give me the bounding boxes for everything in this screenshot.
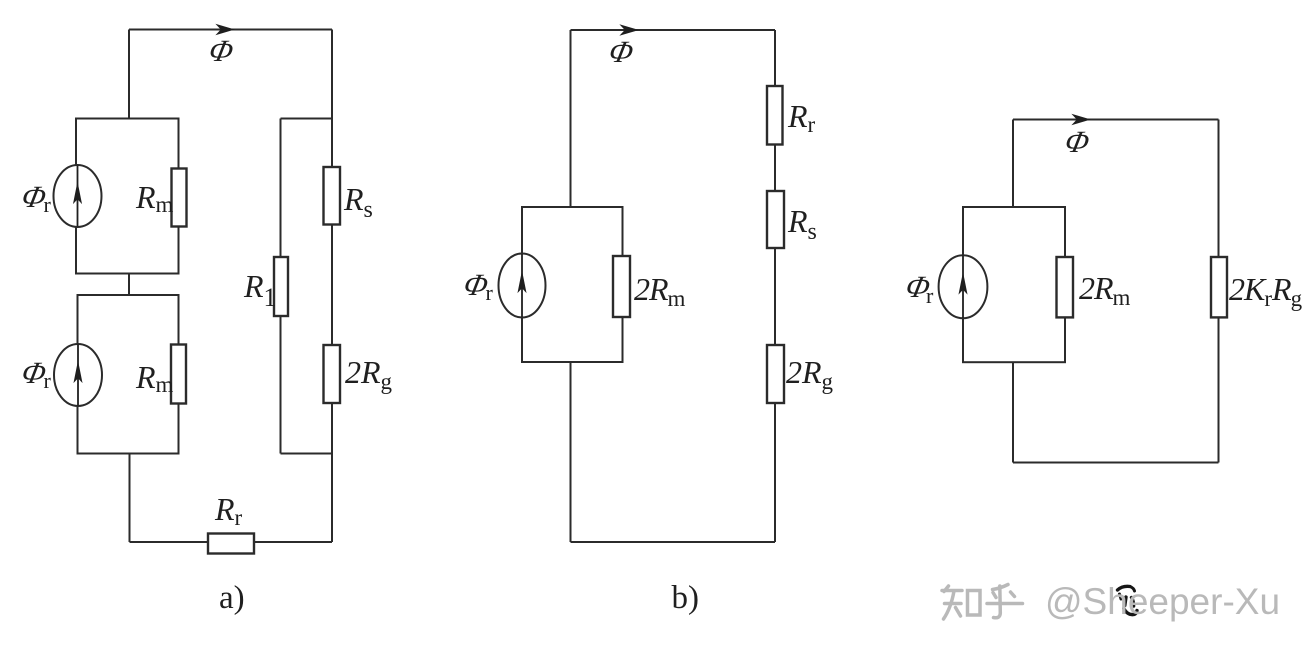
node label PHI (circuit c)	[1062, 124, 1093, 159]
flux arrow on circuit c top wire	[1073, 115, 1089, 124]
flux source PHI_r (circuit b, ellipse)	[499, 254, 546, 318]
caption c) visible black remnants over watermark	[1118, 586, 1138, 614]
flux source PHI_r 1 (circuit a, ellipse)	[54, 165, 102, 227]
resistor 2KrRg (circuit c)	[1211, 257, 1227, 317]
value label PHI_r (circuit b)	[461, 267, 492, 302]
flux source PHI_r 1 internal arrow	[74, 166, 81, 227]
svg-text:r: r	[926, 283, 934, 308]
wire: circuit b right bus	[774, 30, 776, 542]
resistor R1 (circuit a)	[274, 257, 288, 316]
svg-text:b): b)	[672, 580, 700, 616]
wire: circuit a parallel-section top jumper	[281, 118, 333, 120]
wire: circuit b source loop box	[522, 207, 623, 362]
wire: circuit c source loop box	[963, 207, 1065, 362]
svg-text:r: r	[486, 280, 494, 305]
resistor Rr (circuit a, horizontal)	[208, 534, 254, 554]
flux source PHI_r 2 (circuit a, ellipse)	[54, 344, 102, 406]
flux source PHI_r (circuit c, ellipse)	[939, 255, 988, 318]
wire: circuit b left riser	[570, 30, 572, 207]
value label PHI_r 2	[19, 355, 50, 390]
flux source PHI_r (circuit b) internal arrow	[518, 254, 525, 317]
watermark hanzi ZHI (knowledge)	[942, 586, 980, 619]
wire: circuit a top wire	[129, 29, 332, 31]
resistor Rm 1 (circuit a)	[172, 169, 187, 227]
flux arrow on circuit b top wire	[621, 25, 637, 34]
resistor 2Rg (circuit a)	[324, 345, 341, 403]
wire: circuit c right bus	[1218, 120, 1220, 463]
resistor Rs (circuit b)	[767, 191, 784, 248]
wire: circuit c bottom wire	[1013, 462, 1219, 464]
wire: circuit a left riser from top wire to source box 1	[128, 30, 130, 119]
flux source PHI_r 2 internal arrow	[74, 345, 81, 406]
value label PHI_r (circuit c)	[903, 269, 934, 304]
svg-text:r: r	[44, 368, 52, 393]
value label PHI_r 1	[19, 179, 50, 214]
wire: circuit a R1 branch vertical	[280, 119, 282, 454]
wire: circuit c bottom riser	[1012, 362, 1014, 462]
wire: circuit a source loop box 2	[78, 295, 179, 454]
node label PHI (circuit a)	[206, 33, 237, 68]
resistor Rm 2 (circuit a)	[171, 345, 186, 404]
resistor 2Rg (circuit b)	[767, 345, 784, 403]
wire: circuit a bottom wire	[130, 541, 333, 543]
watermark hanzi HU (at)	[987, 585, 1023, 618]
wire: circuit b top wire	[571, 29, 776, 31]
wire: circuit c top wire	[1013, 119, 1219, 121]
node label PHI (circuit b)	[606, 34, 637, 69]
svg-text:r: r	[44, 192, 52, 217]
wire: circuit a source loop box 1	[76, 119, 179, 274]
resistor 2Rm (circuit c)	[1057, 257, 1074, 317]
wire: circuit a parallel-section bottom jumper	[281, 453, 333, 455]
wire: circuit a bottom riser	[129, 454, 131, 543]
wire: circuit a link between source boxes	[128, 274, 130, 296]
wire: circuit b bottom wire	[571, 541, 776, 543]
flux source PHI_r (circuit c) internal arrow	[959, 256, 966, 319]
svg-text:@Sheeper-Xu: @Sheeper-Xu	[1045, 581, 1280, 622]
svg-text:a): a)	[219, 580, 245, 616]
flux arrow on circuit a top wire	[217, 25, 233, 34]
wire: circuit c left riser	[1012, 120, 1014, 208]
resistor 2Rm (circuit b)	[613, 256, 630, 317]
watermark white emboss layer	[1042, 577, 1277, 618]
wire: circuit a right bus (top to bottom wire)	[331, 30, 333, 543]
resistor Rs (circuit a)	[324, 167, 341, 225]
wire: circuit b bottom riser	[570, 362, 572, 542]
resistor Rr (circuit b)	[767, 86, 783, 145]
